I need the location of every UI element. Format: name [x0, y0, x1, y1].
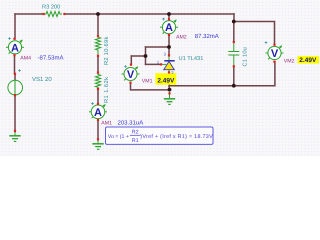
svg-text:87.32mA: 87.32mA [195, 33, 219, 40]
svg-text:A: A [11, 42, 19, 54]
svg-text:AM4: AM4 [20, 56, 31, 62]
svg-text:C1 10u: C1 10u [242, 47, 248, 67]
svg-text:VM2: VM2 [284, 59, 295, 65]
svg-text:R1 1.62k: R1 1.62k [103, 77, 110, 103]
svg-text:Vo = (1 +: Vo = (1 + [108, 134, 129, 140]
svg-text:R2 10.69k: R2 10.69k [103, 36, 110, 65]
svg-text:R2: R2 [132, 129, 139, 135]
svg-text:V: V [127, 69, 135, 81]
svg-text:AM1: AM1 [101, 120, 112, 126]
svg-text:A: A [165, 22, 173, 34]
svg-text:VS1 20: VS1 20 [32, 76, 52, 83]
svg-text:2.49V: 2.49V [157, 77, 175, 84]
svg-text:)Vref + (Iref x R1) = 18.73V: )Vref + (Iref x R1) = 18.73V [140, 134, 213, 140]
svg-text:AM2: AM2 [176, 35, 187, 41]
svg-text:203.31uA: 203.31uA [118, 119, 144, 126]
svg-text:-87.53mA: -87.53mA [38, 55, 64, 62]
svg-text:R1: R1 [132, 138, 139, 144]
svg-text:A: A [94, 107, 102, 119]
svg-text:U1 TL431: U1 TL431 [179, 56, 204, 62]
svg-text:R3 200: R3 200 [42, 5, 60, 11]
svg-text:VM1: VM1 [142, 79, 153, 85]
svg-text:V: V [271, 48, 279, 60]
svg-text:2.49V: 2.49V [299, 57, 317, 64]
